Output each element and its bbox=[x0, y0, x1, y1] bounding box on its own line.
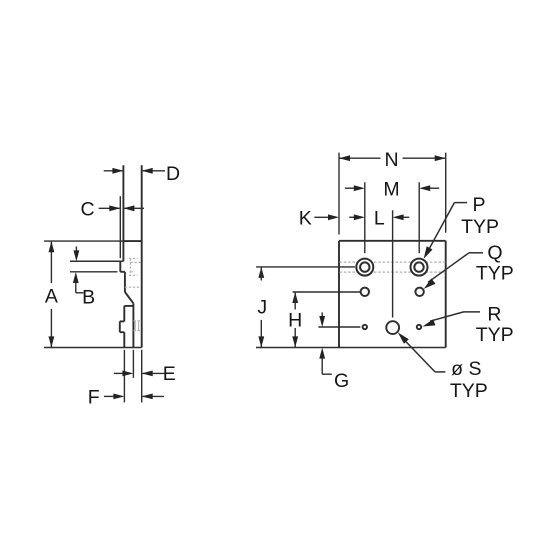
dimension N arrow left bbox=[339, 155, 350, 161]
left view: hidden counterbore face bbox=[129, 258, 131, 275]
svg-text:R: R bbox=[487, 303, 501, 325]
dimension L line left bbox=[349, 216, 356, 218]
callout Q label bbox=[487, 242, 502, 264]
dimension N line left bbox=[339, 157, 381, 159]
left view: upper tab top edge with B extension bbox=[70, 260, 123, 262]
left view: lower tab top edge bbox=[120, 320, 125, 322]
dimension A arrow bottom bbox=[49, 336, 55, 347]
svg-text:TYP: TYP bbox=[476, 324, 514, 346]
left view: hidden hole line upper bbox=[130, 261, 141, 263]
dimension F line left bbox=[104, 395, 115, 397]
dimension B arrow up bbox=[73, 272, 79, 283]
dimension L arrow right bbox=[393, 214, 404, 220]
front view: hidden centerline upper bbox=[340, 261, 446, 263]
dimension K label bbox=[299, 207, 312, 229]
dimension B arrow down bbox=[74, 250, 80, 261]
left view: B lower extension line bbox=[70, 271, 118, 273]
callout R TYP bbox=[476, 324, 514, 346]
svg-text:C: C bbox=[80, 198, 94, 220]
hole Q right bbox=[415, 288, 423, 296]
hole S center bbox=[386, 321, 399, 334]
dimension G tail upper bbox=[321, 312, 323, 318]
dimension J arrow bottom bbox=[258, 336, 264, 347]
left view: chamfer diagonal bbox=[125, 292, 133, 303]
dimension D line right bbox=[143, 170, 165, 172]
callout S leader bbox=[404, 340, 445, 372]
svg-text:M: M bbox=[383, 178, 399, 200]
dimension A arrow top bbox=[49, 241, 55, 252]
left view: C left extension line bbox=[119, 196, 121, 258]
dimension E line left bbox=[114, 372, 124, 374]
dimension M arrow right bbox=[419, 185, 430, 191]
left view: lower tab left face bbox=[119, 321, 121, 332]
callout S arrow bbox=[398, 332, 409, 343]
dimension E line right bbox=[143, 372, 166, 374]
left view: mid left face bbox=[124, 272, 126, 292]
svg-text:TYP: TYP bbox=[450, 380, 488, 402]
hole R right bbox=[417, 325, 421, 329]
dimension A line upper bbox=[50, 241, 52, 283]
dimension E label bbox=[163, 363, 176, 385]
dimension F line right bbox=[143, 395, 164, 397]
dimension D label bbox=[166, 163, 180, 185]
left view: lower boss upper face bbox=[123, 306, 125, 322]
dimension B leader horizontal bbox=[76, 292, 84, 294]
front view: block top edge bbox=[339, 240, 446, 242]
dimension H arrow top bbox=[292, 292, 298, 303]
dimension B label bbox=[82, 286, 95, 308]
dimension F arrow right bbox=[142, 394, 153, 400]
dimension D line left bbox=[104, 170, 123, 172]
left view: hidden thread box bottom bbox=[134, 330, 141, 332]
front view: H extension line bbox=[293, 291, 361, 293]
callout Q TYP bbox=[476, 263, 514, 285]
callout R label bbox=[487, 303, 501, 325]
left view: lower extension line 3 bbox=[141, 350, 143, 403]
dimension F arrow left bbox=[113, 394, 124, 400]
dimension B leader vertical bbox=[75, 282, 77, 293]
left view: hidden thread box top bbox=[134, 320, 141, 322]
front view: M right extension line bbox=[418, 182, 420, 253]
hole P right: counterbore outer circle bbox=[411, 259, 428, 276]
left view: hidden counterbore bottom bbox=[129, 274, 138, 276]
svg-text:TYP: TYP bbox=[461, 216, 499, 238]
dimension M line left bbox=[345, 187, 356, 189]
svg-text:A: A bbox=[45, 286, 58, 308]
left view: hidden counterbore top bbox=[129, 257, 138, 259]
callout P arrow bbox=[424, 246, 433, 259]
dimension F label bbox=[88, 386, 100, 408]
front view: N left extension line bbox=[338, 153, 340, 235]
dimension H line upper bbox=[294, 292, 296, 309]
left view: hidden thread line 1 bbox=[134, 321, 136, 331]
dimension G arrow down bbox=[319, 316, 325, 327]
left view: plate upper-left face with D extension bbox=[122, 165, 124, 261]
dimension N label bbox=[384, 149, 398, 171]
dimension A line lower bbox=[50, 309, 52, 347]
dimension E arrow left bbox=[122, 371, 133, 377]
dimension J line lower bbox=[260, 320, 262, 348]
left view: hidden mid hole line bbox=[125, 286, 140, 288]
front view: M left extension line bbox=[364, 182, 366, 253]
front view: block right edge bbox=[445, 241, 447, 348]
dimension H arrow bottom bbox=[292, 336, 298, 347]
left view: plate top edge bbox=[123, 240, 141, 242]
svg-text:F: F bbox=[88, 386, 100, 408]
callout R leader bbox=[430, 312, 480, 321]
left view: lower boss top edge bbox=[124, 305, 133, 307]
svg-text:P: P bbox=[472, 194, 485, 216]
dimension C line right bbox=[124, 207, 144, 209]
left view: plate bottom edge with A extension bbox=[44, 347, 142, 349]
dimension K arrow bbox=[328, 214, 339, 220]
dimension J label bbox=[257, 296, 267, 318]
dimension M line right bbox=[428, 187, 439, 189]
dimension C arrow left bbox=[109, 205, 120, 211]
svg-text:N: N bbox=[384, 149, 398, 171]
svg-text:D: D bbox=[166, 163, 180, 185]
dimension N line right bbox=[403, 157, 446, 159]
svg-text:J: J bbox=[257, 296, 267, 318]
svg-text:K: K bbox=[299, 207, 312, 229]
callout Q leader bbox=[428, 253, 483, 282]
left view: upper tab bottom edge bbox=[120, 271, 125, 273]
left view: A top extension line bbox=[44, 240, 123, 242]
dimension N arrow right bbox=[435, 155, 446, 161]
svg-text:G: G bbox=[334, 370, 349, 392]
dimension H label bbox=[288, 309, 302, 331]
left view: hidden hole line lower bbox=[130, 271, 134, 273]
left view: lower extension line 1 bbox=[123, 350, 125, 403]
callout P TYP bbox=[461, 216, 499, 238]
left view: plate right face with D extension bbox=[141, 165, 143, 347]
dimension C label bbox=[80, 198, 94, 220]
dimension L label bbox=[374, 207, 385, 229]
dimension G label bbox=[334, 370, 349, 392]
dimension C arrow right bbox=[123, 205, 134, 211]
dimension L line right bbox=[400, 216, 409, 218]
front view: S hole extension line bbox=[392, 210, 394, 317]
left view: upper tab left face bbox=[119, 261, 121, 272]
callout S TYP bbox=[450, 380, 488, 402]
front view: N right extension line bbox=[445, 153, 447, 233]
dimension L arrow left bbox=[354, 214, 365, 220]
hole P left: counterbore outer circle bbox=[356, 259, 373, 276]
left view: lower tab bottom edge bbox=[120, 331, 125, 333]
left view: inner visible edge bbox=[132, 303, 134, 347]
dimension G leader horizontal bbox=[322, 373, 332, 375]
callout Q arrow bbox=[424, 279, 436, 289]
callout S label bbox=[451, 358, 481, 380]
svg-text:ø S: ø S bbox=[451, 358, 481, 380]
hole Q left bbox=[361, 288, 369, 296]
dimension B tail top bbox=[75, 247, 77, 253]
svg-text:B: B bbox=[82, 286, 95, 308]
svg-text:L: L bbox=[374, 207, 385, 229]
dimension M label bbox=[383, 178, 399, 200]
front view: J extension line bbox=[256, 266, 355, 268]
svg-text:E: E bbox=[163, 363, 176, 385]
dimension M arrow left bbox=[354, 185, 365, 191]
dimension J line upper bbox=[260, 267, 262, 281]
callout P label bbox=[472, 194, 485, 216]
dimension H line lower bbox=[294, 328, 296, 347]
dimension G arrow up bbox=[319, 348, 325, 359]
dimension D arrow right bbox=[142, 168, 153, 174]
svg-text:Q: Q bbox=[487, 242, 502, 264]
dimension A label bbox=[45, 286, 58, 308]
dimension G leader vertical bbox=[321, 357, 323, 374]
front view: block left edge bbox=[338, 241, 340, 348]
hole R left bbox=[363, 325, 367, 329]
front view: lower row extension line bbox=[318, 326, 360, 328]
callout R arrow bbox=[423, 319, 436, 326]
left view: hidden thread line 2 bbox=[138, 321, 140, 331]
dimension D arrow left bbox=[112, 168, 123, 174]
left view: lower boss lower face bbox=[123, 332, 125, 347]
front view: block bottom edge with G extension bbox=[256, 347, 446, 349]
dimension E arrow right bbox=[142, 371, 153, 377]
callout P leader bbox=[427, 203, 468, 254]
svg-text:TYP: TYP bbox=[476, 263, 514, 285]
dimension J arrow top bbox=[258, 267, 264, 278]
dimension C line left bbox=[99, 207, 120, 209]
hole P left: inner circle bbox=[360, 262, 369, 271]
hole P right: inner circle bbox=[414, 262, 423, 271]
left view: lower extension line 2 bbox=[132, 350, 134, 378]
front view: hidden centerline lower bbox=[340, 271, 446, 273]
dimension K line bbox=[314, 216, 330, 218]
